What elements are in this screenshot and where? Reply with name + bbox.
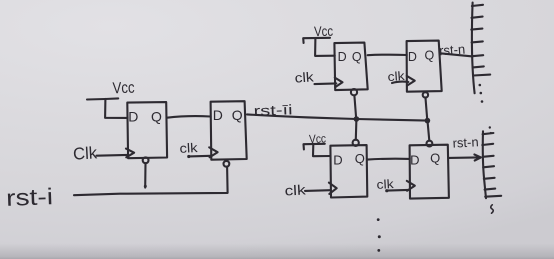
svg-text:rst-n: rst-n bbox=[439, 42, 466, 59]
bus tap 5 (bottom) bbox=[484, 178, 495, 179]
flip-flop U3 bbox=[334, 43, 367, 91]
bus tap 3 (top) bbox=[471, 29, 482, 30]
reset bubble U4 bbox=[423, 92, 428, 97]
svg-text:Q: Q bbox=[355, 151, 365, 166]
svg-text:Clk: Clk bbox=[73, 143, 98, 163]
bus tap 7 long (top) bbox=[473, 74, 490, 77]
wire Vcc to D of U3 bbox=[315, 38, 335, 56]
wire Q6 to bus with arrow bbox=[449, 156, 478, 159]
bus tap 6 (top) bbox=[473, 66, 484, 67]
svg-text:Vcc: Vcc bbox=[112, 80, 135, 98]
flip-flop U2 bbox=[211, 101, 247, 160]
wire Q3 to D4 bbox=[368, 54, 407, 57]
svg-text:rst-i: rst-i bbox=[6, 183, 54, 211]
bus tap 1 (bottom) bbox=[483, 133, 494, 134]
wire clk to U6 bbox=[387, 189, 409, 192]
bus tap 7 long (bottom) bbox=[485, 195, 501, 198]
svg-text:Q: Q bbox=[352, 50, 362, 64]
svg-text:Q: Q bbox=[232, 107, 243, 123]
bus line (bottom) bbox=[483, 131, 486, 198]
ellipsis between rows bbox=[377, 218, 381, 252]
reset bubble U5 (top) bbox=[353, 140, 359, 146]
clock triangle U6 bbox=[407, 181, 415, 191]
svg-text:Q: Q bbox=[425, 49, 435, 63]
wire clk to U5 bbox=[305, 189, 331, 192]
svg-text:D: D bbox=[333, 152, 342, 167]
svg-text:rst-īi: rst-īi bbox=[253, 101, 293, 118]
clock triangle U1 bbox=[126, 149, 134, 158]
wire Vcc to D of U1 bbox=[105, 99, 128, 118]
bus tap 2 (top) bbox=[472, 17, 483, 18]
wire clk to U3 bbox=[315, 82, 337, 85]
svg-text:rst-n: rst-n bbox=[452, 134, 479, 150]
blob at clk wire start (U2) bbox=[187, 155, 190, 158]
wire node A up to U3 bubble bbox=[354, 96, 356, 119]
reset bubble U2 bbox=[224, 161, 230, 167]
svg-text:D: D bbox=[338, 50, 347, 64]
wire Vcc to D of U5 bbox=[313, 144, 331, 156]
clock triangle U5 bbox=[329, 183, 337, 194]
power rail Vcc (U5) bbox=[304, 144, 325, 150]
svg-text:clk: clk bbox=[179, 140, 198, 156]
bus line (top) bbox=[472, 3, 475, 94]
wire clk to U2 bbox=[189, 155, 211, 158]
wire clk to U4 bbox=[392, 82, 408, 83]
svg-text:Vcc: Vcc bbox=[309, 131, 326, 146]
reset bubble U1 bbox=[143, 157, 149, 163]
svg-text:Vcc: Vcc bbox=[314, 23, 334, 40]
arrowhead on Q6 wire bbox=[474, 155, 481, 161]
flip-flop U6 bbox=[410, 145, 449, 199]
svg-text:clk: clk bbox=[294, 69, 314, 85]
junction node B bbox=[425, 118, 431, 124]
wire rst-i net bbox=[74, 167, 228, 195]
blob at U1 reset wire end bbox=[144, 185, 147, 188]
svg-text:Q: Q bbox=[151, 109, 162, 125]
power rail Vcc (U1) bbox=[87, 98, 118, 99]
svg-text:D: D bbox=[410, 152, 419, 167]
reset bubble U3 bbox=[351, 89, 357, 95]
wire node A down to U5 bubble bbox=[355, 119, 358, 140]
tick marks above bottom bus bbox=[489, 126, 492, 134]
squiggle below bottom bus bbox=[491, 205, 494, 213]
svg-text:clk: clk bbox=[284, 181, 307, 198]
ellipsis below top bus bbox=[479, 84, 484, 103]
bus tap 6 (bottom) bbox=[485, 189, 496, 190]
wire node B up to U4 bubble bbox=[426, 98, 428, 121]
bus tap 1 (top) bbox=[472, 5, 483, 6]
svg-text:Q: Q bbox=[430, 151, 440, 166]
svg-text:D: D bbox=[128, 108, 138, 124]
wire Clk to U1 bbox=[97, 154, 128, 157]
wire Q5 to D6 bbox=[367, 158, 409, 161]
clock triangle U2 bbox=[209, 147, 217, 157]
flip-flop U5 bbox=[330, 145, 367, 197]
bus tap 4 (bottom) bbox=[483, 166, 494, 167]
svg-text:D: D bbox=[213, 107, 223, 123]
wire U1 reset down bbox=[144, 163, 146, 187]
clock triangle U4 bbox=[407, 76, 415, 86]
bus tap 3 (bottom) bbox=[483, 156, 494, 157]
flip-flop U1 bbox=[127, 102, 167, 158]
wire Q1 to D2 bbox=[167, 116, 211, 118]
bus tap 5 (top) bbox=[472, 55, 483, 56]
wire Q4 to bus bbox=[442, 53, 473, 56]
reset bubble U6 (top) bbox=[427, 141, 433, 147]
junction node A bbox=[354, 116, 360, 122]
bus tap 4 (top) bbox=[472, 41, 483, 42]
wire Q2 rst-ii net bbox=[247, 114, 427, 120]
wire node B down to U6 bubble bbox=[428, 121, 430, 141]
blob at clk wire start (U6) bbox=[385, 189, 388, 192]
flip-flop U4 bbox=[407, 41, 442, 92]
bus tap 2 (bottom) bbox=[482, 144, 493, 145]
clock triangle U3 bbox=[335, 78, 343, 88]
svg-text:D: D bbox=[408, 50, 417, 64]
power rail Vcc (U3) bbox=[303, 38, 330, 43]
